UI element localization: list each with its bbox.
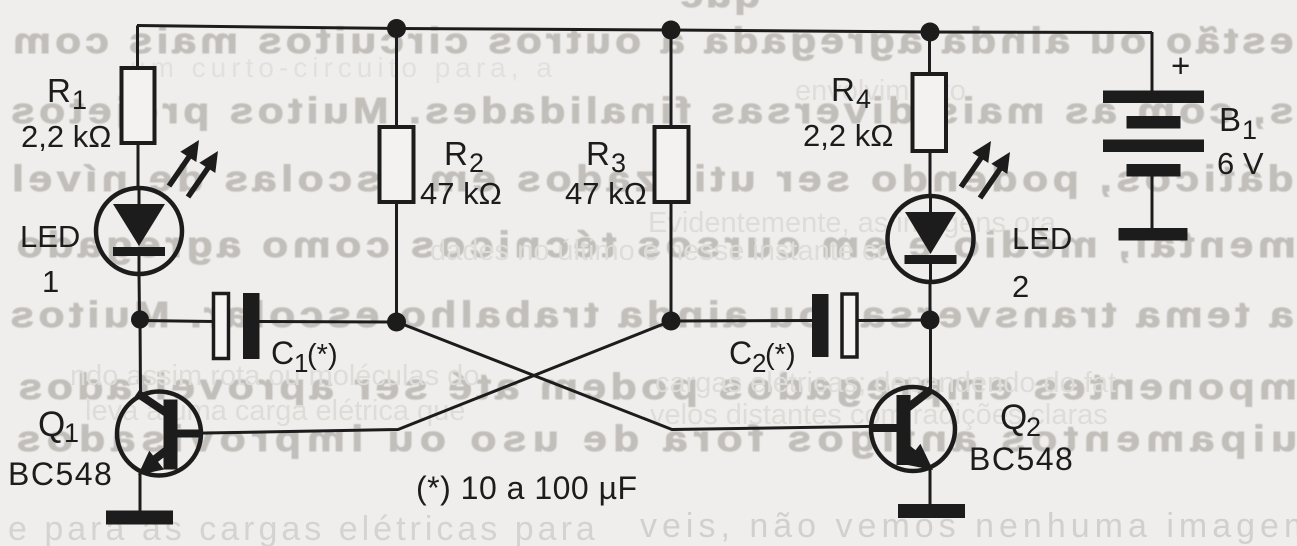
wire LED2 to node D <box>929 282 932 320</box>
transistor Q1 <box>117 392 201 476</box>
svg-text:47 kΩ: 47 kΩ <box>420 176 502 211</box>
svg-text:LED: LED <box>1012 221 1072 256</box>
LED1 light arrows <box>169 140 218 197</box>
svg-text:2,2 kΩ: 2,2 kΩ <box>21 119 111 154</box>
LED D2 <box>888 196 974 282</box>
svg-text:4: 4 <box>856 84 871 114</box>
svg-text:Q: Q <box>1000 398 1027 437</box>
wire node A to C1 <box>140 321 214 322</box>
svg-text:6 V: 6 V <box>1217 146 1264 181</box>
resistor R1 <box>122 68 155 143</box>
svg-text:1: 1 <box>64 418 79 448</box>
wire R4 top <box>928 32 931 74</box>
wire battery positive drop <box>1151 32 1154 91</box>
junction dot node A <box>131 311 149 329</box>
wire R4 to LED2 <box>929 151 932 197</box>
junction dot node D <box>921 311 940 330</box>
LED D1 <box>96 188 182 274</box>
svg-text:um curto-circuito para, a: um curto-circuito para, a <box>130 52 557 83</box>
capacitor C1 <box>214 293 260 359</box>
svg-text:B: B <box>1219 101 1241 138</box>
wire R1 to LED1 <box>137 143 140 188</box>
svg-text:BC548: BC548 <box>8 456 113 492</box>
battery B1 <box>1103 91 1204 241</box>
resistor R4 <box>913 74 947 151</box>
svg-text:(*): (*) <box>765 339 796 371</box>
svg-text:47 kΩ: 47 kΩ <box>565 176 647 211</box>
svg-text:R: R <box>831 71 855 108</box>
wire node A to Q1 collector <box>139 319 143 394</box>
svg-text:+: + <box>1171 47 1190 84</box>
junction dot rail R3 <box>662 21 681 40</box>
svg-text:3: 3 <box>611 148 626 178</box>
capacitor C2 <box>812 294 857 357</box>
junction dot rail R4 <box>921 23 940 42</box>
svg-text:1: 1 <box>1242 115 1257 145</box>
svg-text:que: que <box>678 0 761 15</box>
resistor R2 <box>380 127 414 202</box>
svg-text:R: R <box>586 135 610 172</box>
transistor Q2 <box>871 387 955 471</box>
svg-text:R: R <box>47 72 71 109</box>
ground Q2 <box>898 504 965 518</box>
svg-text:2: 2 <box>1026 412 1041 442</box>
wire node C to Q1 base (cross coupling) <box>178 321 671 434</box>
LED2 light arrows <box>961 141 1010 198</box>
wire Q1 emitter to ground <box>139 473 142 512</box>
svg-text:dades no último e nesse instan: dades no último e nesse instante co <box>430 235 893 267</box>
svg-text:C: C <box>271 335 294 371</box>
svg-text:cargas elétricas; dependendo d: cargas elétricas; dependendo do fat <box>655 367 1116 399</box>
wire C1 to node B <box>259 320 397 324</box>
resistor R3 <box>655 127 689 202</box>
svg-text:BC548: BC548 <box>969 441 1074 477</box>
junction dot node B <box>387 313 406 332</box>
wire node C to C2 <box>671 319 812 323</box>
wire top rail <box>137 26 1152 33</box>
svg-text:1: 1 <box>42 264 59 299</box>
wire node B to Q2 base (cross coupling) <box>397 322 896 430</box>
wire R1 top <box>136 26 139 69</box>
svg-text:1: 1 <box>72 85 87 115</box>
svg-text:Q: Q <box>38 405 65 444</box>
svg-text:e para as cargas elétricas par: e para as cargas elétricas para <box>8 510 599 546</box>
svg-text:s, com as mais diversas finali: s, com as mais diversas finalidades. Mui… <box>7 91 1294 131</box>
wire LED1 to node A <box>138 272 142 319</box>
svg-text:veis, não vemos nenhuma imagem: veis, não vemos nenhuma imagem <box>640 507 1297 545</box>
wire R3 top <box>670 30 673 127</box>
wire battery negative lead <box>1151 176 1154 229</box>
svg-text:C: C <box>729 335 752 371</box>
wire R2 bottom to node B <box>395 202 398 322</box>
svg-text:(*) 10 a 100 µF: (*) 10 a 100 µF <box>416 470 638 506</box>
schematic ink <box>137 26 1152 513</box>
svg-text:R: R <box>444 135 468 172</box>
svg-text:2,2 kΩ: 2,2 kΩ <box>803 118 893 153</box>
svg-text:2: 2 <box>469 148 484 178</box>
wire R2 top <box>395 29 398 128</box>
svg-text:2: 2 <box>1012 269 1029 304</box>
svg-text:(*): (*) <box>307 339 338 371</box>
junction dot node C <box>662 312 681 331</box>
wire node D to Q2 collector <box>929 320 932 390</box>
wire Q2 emitter to ground <box>929 469 932 505</box>
ground Q1 <box>106 511 173 525</box>
svg-text:LED: LED <box>20 219 80 254</box>
junction dot rail R2 <box>387 19 406 38</box>
wire C2 to node D <box>857 319 930 323</box>
wire R3 bottom to node C <box>670 202 673 321</box>
